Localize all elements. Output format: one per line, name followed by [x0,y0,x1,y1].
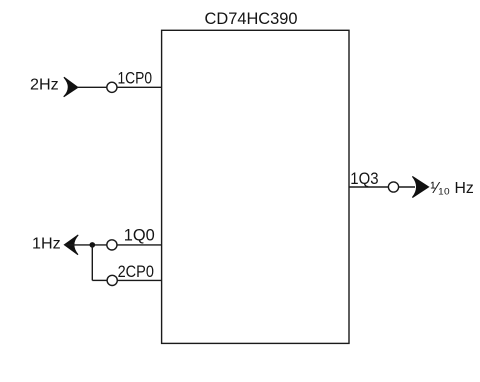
arrow output 1/10 Hz [412,176,428,197]
svg-text:1CP0: 1CP0 [118,69,153,87]
svg-text:1Q3: 1Q3 [350,170,378,188]
svg-text:2CP0: 2CP0 [118,263,154,281]
wire circle to pin 2CP0 [117,279,161,281]
wire pin 1Q3 to circle [349,186,389,188]
wire circle to pin 1CP0 [117,86,162,88]
svg-text:2Hz: 2Hz [30,77,59,94]
svg-text:1Hz: 1Hz [32,236,61,253]
svg-text:1Q0: 1Q0 [124,226,155,244]
svg-text:CD74HC390: CD74HC390 [205,9,298,28]
pin circle 1CP0 [107,82,117,92]
arrow input 2Hz [64,77,78,97]
pin circle 2CP0 [107,275,117,285]
wire to circle 2CP0 [92,279,107,281]
wire vertical junction to 2CP0 [91,245,93,281]
svg-text:¹⁄₁₀ Hz: ¹⁄₁₀ Hz [430,180,474,197]
wire 2Hz to circle [77,86,107,88]
wire circle to pin 1Q0 [117,244,162,246]
arrow output 1Hz [64,235,78,255]
junction node [90,242,96,248]
IC U1 CD74HC390 body [162,30,349,343]
wire 1Hz to circle [65,244,107,246]
wire circle to arrow [399,186,415,188]
pin circle 1Q0 [107,240,117,250]
pin circle 1Q3 [388,182,398,192]
